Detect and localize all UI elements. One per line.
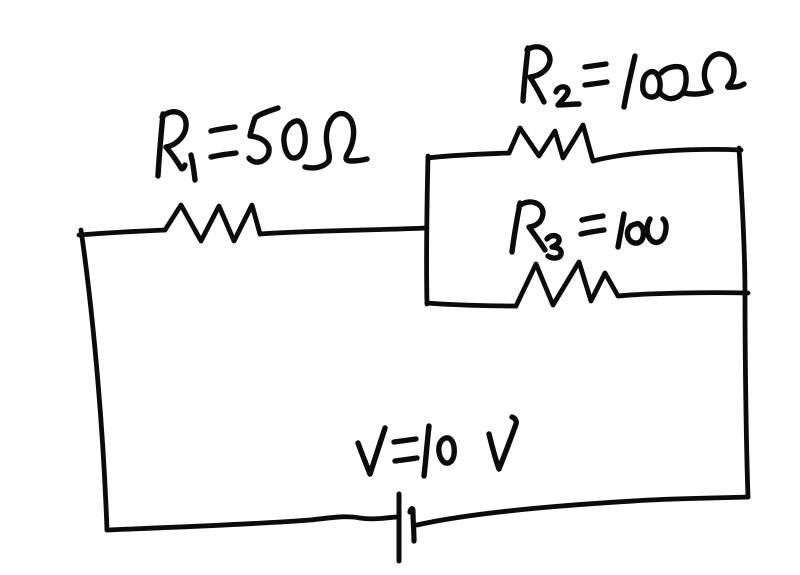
resistor R3 (516, 262, 618, 306)
wire bottom-left to battery (107, 517, 396, 530)
label battery value "V=10V" (358, 417, 516, 476)
label R1 value "R1=50ohm" (158, 108, 367, 180)
battery V short plate (410, 509, 414, 541)
resistor R1 (165, 205, 260, 241)
resistor R2 (509, 125, 593, 161)
label R2 value "R2=100ohm" (523, 47, 744, 107)
wire box bottom-right segment (618, 293, 748, 296)
label R3 value "R3=100" (512, 202, 666, 258)
wire top-left horizontal into R1 (79, 230, 165, 235)
wire right vertical side (745, 296, 748, 497)
wire parallel-box left vertical (427, 156, 428, 304)
wire R1 to parallel box left node (260, 228, 427, 234)
wire box right vertical (739, 148, 745, 296)
battery V long plate (397, 494, 402, 561)
wire box bottom-left segment (427, 303, 516, 306)
wire battery to bottom-right (417, 497, 748, 525)
wire box top-left segment (428, 153, 509, 158)
wire box top-right segment (593, 149, 741, 161)
wire left vertical side (81, 230, 107, 530)
